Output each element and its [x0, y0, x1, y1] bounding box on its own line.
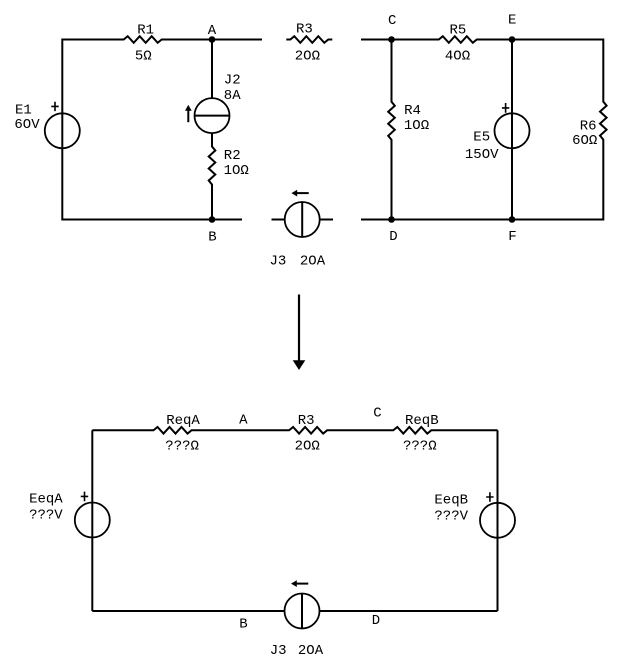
svg-text:B: B [208, 230, 216, 246]
svg-text:E: E [508, 13, 516, 29]
svg-text:EeqA: EeqA [29, 492, 63, 508]
svg-text:ReqB: ReqB [405, 413, 439, 429]
svg-text:F: F [508, 229, 516, 245]
svg-text:A: A [239, 413, 248, 429]
svg-text:???Ω: ???Ω [403, 438, 437, 454]
svg-text:D: D [389, 229, 397, 245]
svg-text:15OV: 15OV [465, 147, 499, 163]
svg-text:A: A [208, 23, 217, 39]
svg-text:2OΩ: 2OΩ [295, 48, 320, 64]
svg-text:4OΩ: 4OΩ [445, 49, 470, 65]
svg-text:C: C [373, 406, 381, 422]
svg-text:R1: R1 [137, 22, 154, 38]
svg-text:C: C [388, 13, 396, 29]
svg-text:8A: 8A [224, 88, 241, 104]
svg-text:???Ω: ???Ω [165, 438, 199, 454]
svg-text:D: D [372, 613, 380, 629]
svg-text:E5: E5 [473, 130, 490, 146]
svg-text:???V: ???V [29, 508, 63, 524]
svg-text:J2: J2 [224, 73, 241, 89]
svg-text:R6: R6 [580, 118, 597, 134]
svg-text:B: B [239, 617, 247, 633]
svg-text:R3: R3 [298, 413, 315, 429]
svg-text:R4: R4 [404, 103, 421, 119]
svg-text:J3: J3 [270, 643, 287, 659]
svg-text:E1: E1 [15, 103, 32, 119]
svg-text:6OΩ: 6OΩ [572, 133, 597, 149]
svg-text:R2: R2 [224, 148, 241, 164]
svg-text:2OA: 2OA [298, 643, 324, 659]
svg-text:6OV: 6OV [14, 117, 40, 133]
svg-text:EeqB: EeqB [434, 493, 468, 509]
svg-text:5Ω: 5Ω [135, 49, 152, 65]
svg-text:J3: J3 [269, 253, 286, 269]
svg-text:R3: R3 [296, 22, 313, 38]
svg-text:2OΩ: 2OΩ [295, 438, 320, 454]
svg-text:2OA: 2OA [300, 253, 326, 269]
svg-text:1OΩ: 1OΩ [224, 163, 249, 179]
svg-text:1OΩ: 1OΩ [404, 118, 429, 134]
svg-text:???V: ???V [434, 509, 468, 525]
svg-text:ReqA: ReqA [166, 413, 200, 429]
svg-text:R5: R5 [449, 23, 466, 39]
